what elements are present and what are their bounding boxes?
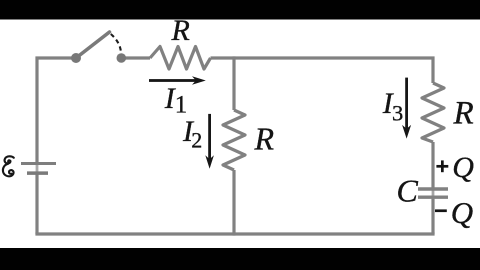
resistor R (top, horizontal) — [150, 47, 211, 70]
wire: faint segment between capacitor plates — [432, 189, 435, 197]
switch pivot dot — [71, 53, 81, 63]
battery EMF source: long plate — [21, 162, 56, 165]
svg-text:R: R — [453, 96, 474, 132]
svg-text:Q: Q — [452, 151, 474, 184]
svg-text:3: 3 — [392, 101, 403, 126]
capacitor C bottom plate — [418, 195, 448, 198]
wire: switch right dot to resistor R1 — [121, 56, 150, 59]
svg-text:C: C — [397, 172, 419, 208]
wire: faint segment between battery plates — [36, 164, 39, 174]
svg-text:R: R — [171, 14, 190, 47]
current arrow I1 (right) — [149, 76, 206, 84]
wire: middle branch to bottom rail — [232, 170, 235, 234]
label -Q minus sign — [435, 209, 447, 212]
wire: bottom rail — [35, 232, 434, 235]
battery EMF source: short plate — [27, 171, 48, 175]
current arrow I2 (down) — [205, 114, 214, 169]
wire: middle branch from top rail — [232, 58, 235, 110]
resistor R (middle, vertical) — [223, 110, 245, 170]
svg-text:2: 2 — [191, 128, 202, 153]
wire: top rail from resistor to top-right corner, down to R3 — [211, 58, 434, 83]
switch contact dot — [117, 53, 127, 63]
switch lever arm — [76, 32, 110, 58]
junction node: middle branch meets bottom rail — [233, 232, 236, 235]
wire: R3 bottom to capacitor top plate — [431, 142, 434, 188]
wire: upper-left loop (battery top to switch pivot) — [37, 58, 76, 164]
junction node: middle branch meets top rail — [233, 56, 236, 59]
svg-text:Q: Q — [451, 195, 473, 230]
wire: lower-left (battery bottom to bottom-left corner) — [35, 173, 38, 234]
letterbox bar bottom — [0, 248, 480, 270]
label +Q plus sign — [436, 160, 448, 172]
letterbox bar top — [0, 0, 480, 20]
switch closing dashed arc — [111, 34, 121, 51]
current arrow I3 (down) — [402, 78, 411, 139]
capacitor C top plate — [418, 187, 448, 190]
svg-text:R: R — [254, 121, 275, 157]
label EMF script-E symbol — [3, 156, 14, 176]
resistor R (right, vertical) — [422, 83, 444, 142]
wire: capacitor bottom plate to bottom rail — [431, 199, 434, 234]
